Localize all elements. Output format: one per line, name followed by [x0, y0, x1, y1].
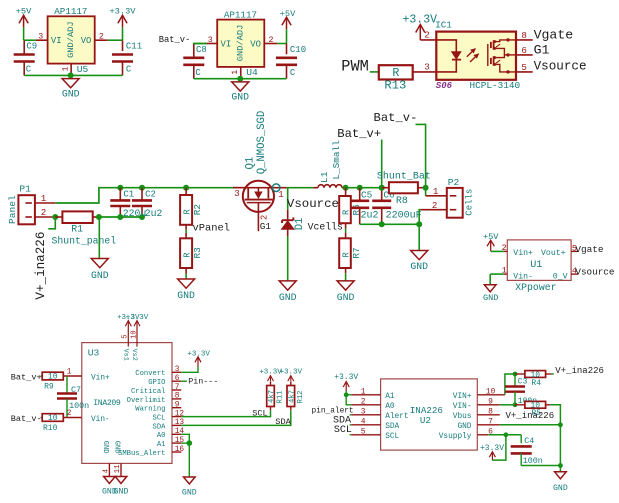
- svg-text:+3.3V: +3.3V: [480, 444, 504, 453]
- svg-text:V+_ina226: V+_ina226: [34, 232, 48, 300]
- svg-text:Warning: Warning: [135, 406, 165, 414]
- svg-text:R8: R8: [396, 196, 408, 207]
- svg-text:2: 2: [432, 200, 438, 211]
- svg-text:C: C: [26, 65, 32, 75]
- svg-text:GND/ADJ: GND/ADJ: [236, 25, 246, 62]
- svg-text:G1: G1: [534, 43, 550, 58]
- svg-text:GND: GND: [113, 441, 121, 454]
- svg-text:2: 2: [41, 207, 47, 218]
- svg-text:C: C: [126, 65, 132, 75]
- svg-text:1: 1: [61, 67, 70, 72]
- svg-text:A1: A1: [157, 441, 166, 449]
- svg-text:Pin---: Pin---: [188, 377, 218, 387]
- svg-text:INA209: INA209: [93, 399, 121, 408]
- svg-text:Vsource: Vsource: [534, 59, 587, 73]
- svg-text:5: 5: [361, 427, 366, 436]
- svg-text:GND: GND: [182, 488, 197, 497]
- svg-text:GND: GND: [279, 292, 297, 303]
- svg-text:Shunt_panel: Shunt_panel: [52, 236, 117, 247]
- svg-text:3: 3: [361, 407, 366, 416]
- svg-text:R: R: [341, 252, 351, 258]
- svg-text:R1: R1: [71, 224, 83, 235]
- svg-text:C11: C11: [126, 42, 142, 52]
- svg-text:GND: GND: [101, 441, 109, 454]
- svg-text:U5: U5: [77, 64, 89, 75]
- svg-text:GND: GND: [114, 488, 129, 497]
- svg-text:GND/ADJ: GND/ADJ: [66, 21, 76, 58]
- svg-text:VI: VI: [221, 40, 232, 50]
- svg-text:Vsource: Vsource: [287, 197, 339, 211]
- svg-text:2: 2: [269, 36, 274, 45]
- svg-text:U4: U4: [246, 67, 258, 78]
- svg-text:vPanel: vPanel: [193, 222, 230, 234]
- svg-text:R9: R9: [44, 382, 54, 391]
- svg-text:3: 3: [38, 33, 43, 42]
- svg-text:SDA: SDA: [153, 423, 167, 431]
- svg-text:SCL: SCL: [385, 433, 399, 441]
- svg-text:5: 5: [521, 62, 527, 73]
- svg-text:6: 6: [175, 375, 180, 383]
- svg-text:AP1117: AP1117: [54, 6, 87, 17]
- svg-text:10: 10: [48, 414, 58, 423]
- svg-text:HCPL-3140: HCPL-3140: [470, 80, 521, 91]
- svg-text:Q1: Q1: [244, 157, 256, 170]
- svg-text:SDA: SDA: [275, 417, 291, 427]
- svg-text:C4: C4: [524, 436, 534, 446]
- svg-text:GND: GND: [62, 88, 80, 99]
- svg-text:V+_ina226: V+_ina226: [555, 366, 604, 376]
- svg-text:C8: C8: [196, 45, 207, 55]
- svg-text:Bat_v-: Bat_v-: [374, 111, 418, 125]
- svg-text:100n: 100n: [523, 456, 543, 466]
- svg-text:C7: C7: [71, 385, 81, 395]
- svg-text:R4: R4: [531, 379, 541, 388]
- svg-text:2u2: 2u2: [145, 208, 163, 219]
- svg-text:Bat_v+: Bat_v+: [11, 372, 42, 382]
- svg-text:4k7: 4k7: [288, 390, 296, 403]
- svg-text:C: C: [290, 68, 296, 78]
- svg-text:2200uF: 2200uF: [386, 211, 422, 222]
- svg-text:Critical: Critical: [131, 388, 166, 396]
- svg-text:1: 1: [41, 193, 47, 204]
- svg-text:GND: GND: [553, 484, 568, 493]
- svg-text:C5: C5: [361, 190, 373, 201]
- svg-text:+3.3V: +3.3V: [126, 314, 149, 322]
- svg-text:C2: C2: [145, 189, 156, 199]
- svg-text:+5V: +5V: [16, 7, 32, 17]
- svg-text:U1: U1: [530, 260, 542, 271]
- svg-text:+3.3V: +3.3V: [280, 369, 303, 377]
- svg-text:Shunt_Bat: Shunt_Bat: [377, 171, 431, 183]
- svg-text:Vgate: Vgate: [534, 28, 574, 43]
- svg-text:VIN+: VIN+: [453, 393, 472, 401]
- svg-text:Vbus: Vbus: [453, 413, 472, 421]
- svg-text:Vin+: Vin+: [513, 248, 533, 258]
- svg-text:L1: L1: [319, 171, 330, 183]
- svg-text:2: 2: [67, 410, 72, 418]
- svg-text:P2: P2: [448, 177, 460, 188]
- svg-text:GND: GND: [231, 92, 249, 103]
- svg-text:+3.3V: +3.3V: [187, 350, 210, 358]
- svg-text:R2: R2: [192, 204, 203, 215]
- svg-text:D1: D1: [294, 218, 306, 231]
- svg-text:Q_NMOS_SGD: Q_NMOS_SGD: [256, 111, 268, 175]
- svg-text:pin_alert: pin_alert: [312, 407, 354, 415]
- svg-text:11: 11: [114, 465, 122, 474]
- svg-text:C10: C10: [290, 45, 306, 55]
- svg-text:1: 1: [231, 70, 240, 75]
- svg-text:PWM: PWM: [341, 57, 369, 75]
- svg-text:GND: GND: [410, 261, 428, 272]
- svg-text:+5V: +5V: [483, 232, 499, 242]
- svg-text:P1: P1: [19, 183, 31, 194]
- svg-text:10: 10: [130, 330, 138, 338]
- svg-text:Panel: Panel: [7, 195, 18, 224]
- svg-text:VI: VI: [51, 36, 62, 46]
- svg-text:VO: VO: [81, 36, 92, 46]
- svg-text:1: 1: [361, 387, 366, 396]
- svg-text:100n: 100n: [69, 401, 89, 411]
- svg-text:GND: GND: [337, 292, 355, 303]
- svg-text:SCL: SCL: [334, 425, 352, 436]
- svg-text:AP1117: AP1117: [224, 10, 257, 21]
- svg-text:Vin+: Vin+: [91, 374, 110, 382]
- svg-text:Vs2: Vs2: [130, 349, 138, 361]
- svg-text:0_V: 0_V: [553, 272, 568, 281]
- svg-text:XPpower: XPpower: [515, 282, 556, 293]
- svg-text:2: 2: [99, 33, 104, 42]
- svg-text:2: 2: [424, 29, 430, 40]
- svg-text:C: C: [195, 68, 201, 78]
- svg-text:GND: GND: [91, 270, 109, 281]
- svg-text:Vgate: Vgate: [575, 244, 604, 255]
- svg-text:GND: GND: [177, 290, 195, 301]
- svg-text:2: 2: [361, 397, 366, 406]
- svg-text:R: R: [182, 252, 192, 258]
- svg-text:10: 10: [48, 373, 58, 382]
- svg-text:3: 3: [175, 366, 180, 374]
- svg-text:+3.3V: +3.3V: [334, 373, 358, 382]
- svg-text:+3.3V: +3.3V: [109, 7, 136, 17]
- svg-text:Vcells: Vcells: [308, 221, 343, 232]
- svg-text:8: 8: [521, 30, 527, 41]
- svg-text:U3: U3: [88, 348, 100, 359]
- svg-text:Overlimit: Overlimit: [127, 397, 166, 405]
- svg-text:R3: R3: [192, 247, 203, 259]
- svg-text:9: 9: [175, 402, 180, 410]
- svg-text:Bat_v+: Bat_v+: [337, 127, 381, 141]
- svg-text:A1: A1: [385, 393, 395, 401]
- svg-text:GND: GND: [483, 293, 498, 303]
- svg-text:4k7: 4k7: [268, 390, 276, 403]
- svg-text:Cells: Cells: [465, 189, 475, 216]
- svg-text:SMBus_Alert: SMBus_Alert: [118, 450, 165, 458]
- svg-text:4: 4: [102, 469, 110, 473]
- svg-text:R12: R12: [297, 391, 305, 404]
- svg-text:5: 5: [122, 335, 130, 339]
- svg-text:+5V: +5V: [280, 9, 296, 19]
- svg-text:R11: R11: [277, 391, 285, 404]
- svg-text:6: 6: [521, 45, 527, 56]
- svg-text:U2: U2: [420, 415, 431, 426]
- svg-text:V+_ina226: V+_ina226: [506, 411, 555, 421]
- svg-text:3: 3: [234, 188, 240, 199]
- svg-text:G1: G1: [260, 221, 272, 232]
- svg-text:220u: 220u: [123, 208, 147, 219]
- svg-text:R10: R10: [43, 424, 58, 433]
- svg-text:16: 16: [175, 446, 185, 454]
- svg-text:R: R: [182, 209, 192, 215]
- svg-text:Convert: Convert: [135, 370, 165, 378]
- svg-text:Vout+: Vout+: [541, 249, 566, 258]
- svg-text:3: 3: [424, 62, 430, 73]
- svg-text:A0: A0: [157, 432, 166, 440]
- svg-text:L_Small: L_Small: [331, 140, 342, 180]
- svg-text:Vsupply: Vsupply: [439, 433, 472, 441]
- svg-text:1: 1: [433, 186, 439, 197]
- svg-text:Vin-: Vin-: [513, 271, 533, 281]
- svg-text:C1: C1: [123, 189, 134, 199]
- svg-text:R: R: [341, 209, 351, 215]
- svg-text:1: 1: [67, 369, 72, 377]
- svg-text:Alert: Alert: [385, 413, 408, 421]
- svg-text:A0: A0: [385, 403, 395, 411]
- svg-text:2: 2: [502, 243, 507, 253]
- svg-text:7: 7: [175, 384, 180, 392]
- svg-text:Vs1: Vs1: [121, 349, 129, 361]
- svg-text:1: 1: [502, 266, 507, 276]
- svg-text:2u2: 2u2: [361, 211, 379, 222]
- svg-text:SDA: SDA: [385, 423, 399, 431]
- svg-text:Vsource: Vsource: [575, 267, 614, 278]
- svg-text:R13: R13: [384, 79, 406, 93]
- svg-text:VO: VO: [250, 40, 261, 50]
- svg-text:4: 4: [361, 417, 366, 426]
- svg-text:S06: S06: [436, 81, 453, 91]
- svg-text:Vin-: Vin-: [91, 416, 110, 424]
- svg-text:C3: C3: [518, 377, 528, 386]
- svg-text:Bat_v-: Bat_v-: [11, 414, 42, 424]
- svg-text:SCL: SCL: [252, 408, 267, 418]
- svg-text:GPIO: GPIO: [148, 379, 165, 387]
- svg-text:IC1: IC1: [435, 20, 452, 31]
- svg-text:3: 3: [208, 36, 213, 45]
- svg-text:GND: GND: [457, 423, 471, 431]
- svg-text:VIN-: VIN-: [453, 403, 472, 411]
- svg-text:Bat_v-: Bat_v-: [159, 35, 191, 45]
- svg-text:C9: C9: [26, 42, 37, 52]
- svg-text:SCL: SCL: [153, 415, 166, 423]
- svg-text:8: 8: [175, 393, 180, 401]
- svg-text:2: 2: [260, 215, 270, 220]
- svg-text:R7: R7: [351, 247, 362, 258]
